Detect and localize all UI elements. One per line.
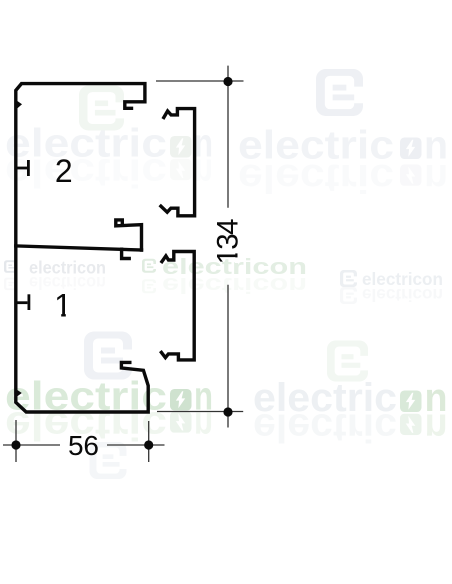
divider profile lower (cover clip) bbox=[161, 252, 194, 360]
dimension dot bottom of 134 bbox=[223, 407, 232, 416]
extension line top (from profile top edge to 134 dim line) bbox=[156, 80, 244, 82]
watermark text row1 right mirror bbox=[238, 156, 448, 200]
watermark text row2 left mirror bbox=[5, 403, 213, 447]
wall rib tick lower bbox=[17, 294, 29, 310]
dimension dot left of 56 bbox=[11, 440, 20, 449]
PROFILE LAYER bbox=[16, 84, 195, 412]
dimension dot top of 134 bbox=[223, 77, 232, 86]
label compartment 1 bbox=[54, 288, 72, 324]
watermark text row2 left (green) bbox=[5, 375, 213, 419]
svg-text:2: 2 bbox=[55, 153, 73, 189]
watermark small unit 3 mirror bbox=[340, 285, 443, 305]
partition lower tab bbox=[122, 249, 130, 258]
dimension dot right of 56 bbox=[144, 440, 153, 449]
dimension line 134 upper segment bbox=[227, 66, 229, 208]
watermark logo top-right bbox=[316, 69, 363, 116]
watermark logo mid-left bbox=[84, 332, 132, 380]
watermark logo top-left bbox=[79, 86, 124, 131]
extension line 56 right vertical bbox=[148, 421, 150, 462]
watermark text row2 right mirror bbox=[253, 406, 448, 450]
divider profile upper (cover clip) bbox=[161, 109, 195, 216]
dimension line 134 lower segment bbox=[227, 285, 229, 428]
svg-text:134: 134 bbox=[212, 219, 245, 265]
extension line 56 left vertical bbox=[15, 420, 17, 462]
watermark logo mid-right bbox=[327, 341, 368, 382]
trunking main body outline bbox=[16, 84, 148, 412]
wall barb bottom bbox=[17, 390, 22, 397]
dimension line 56 left segment bbox=[3, 444, 60, 446]
extension line bottom (from profile bottom edge to 134 dim line) bbox=[157, 411, 243, 413]
watermark small unit 3 bbox=[340, 269, 443, 289]
dimension line 56 right segment bbox=[107, 444, 165, 446]
partition shelf (between compartments 1 and 2) bbox=[16, 246, 142, 250]
watermark small unit 2 mirror bbox=[142, 273, 307, 298]
watermark text row2 right bbox=[253, 376, 448, 420]
watermark text row1 left bbox=[5, 122, 213, 166]
wall rib tick upper bbox=[17, 160, 28, 176]
watermark faint logo bottom bbox=[90, 442, 127, 479]
wall barb top bbox=[17, 101, 22, 109]
DIMENSION LAYER bbox=[3, 66, 244, 462]
watermark small unit 2 bbox=[142, 254, 307, 279]
watermark small unit 1 mirror bbox=[4, 273, 106, 293]
watermark text row1 left mirror bbox=[5, 151, 213, 195]
dimension text 134 (rotated) bbox=[212, 219, 245, 265]
svg-text:1: 1 bbox=[54, 288, 72, 324]
partition rail hook (upper) bbox=[116, 220, 142, 250]
watermark small unit 1 bbox=[4, 258, 106, 278]
svg-text:56: 56 bbox=[68, 430, 99, 461]
watermark text row1 right bbox=[238, 123, 448, 167]
